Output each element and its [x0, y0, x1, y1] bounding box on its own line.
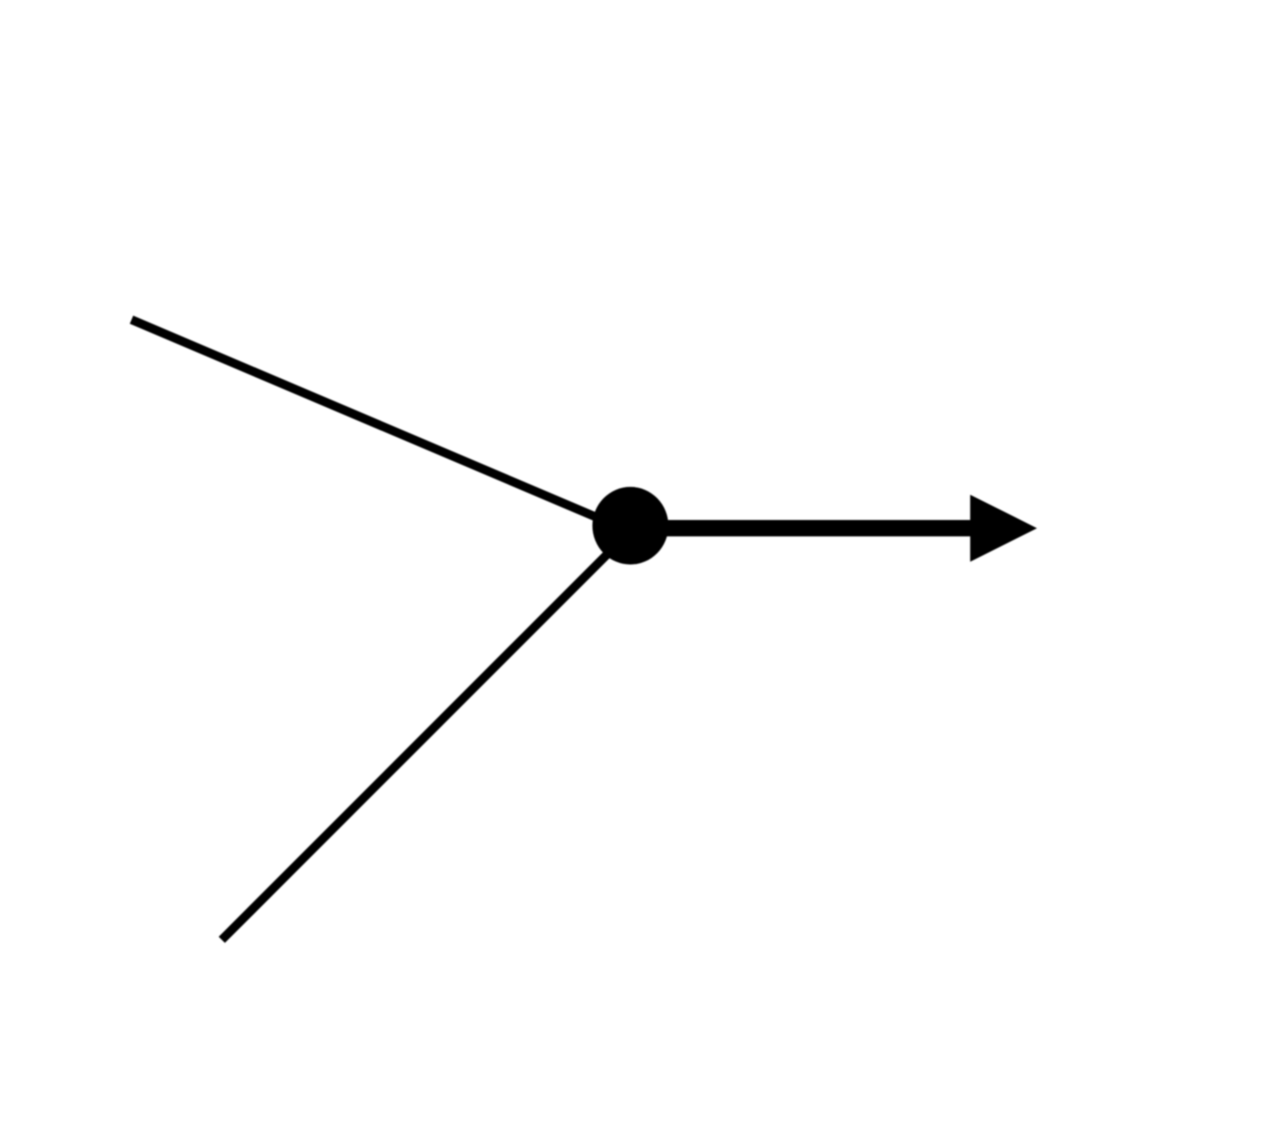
wire lower-left incoming line	[222, 532, 630, 940]
wire upper-left incoming line	[132, 320, 631, 532]
arrowhead	[970, 495, 1037, 562]
arrow shaft	[630, 520, 972, 536]
node junction dot	[592, 487, 668, 565]
